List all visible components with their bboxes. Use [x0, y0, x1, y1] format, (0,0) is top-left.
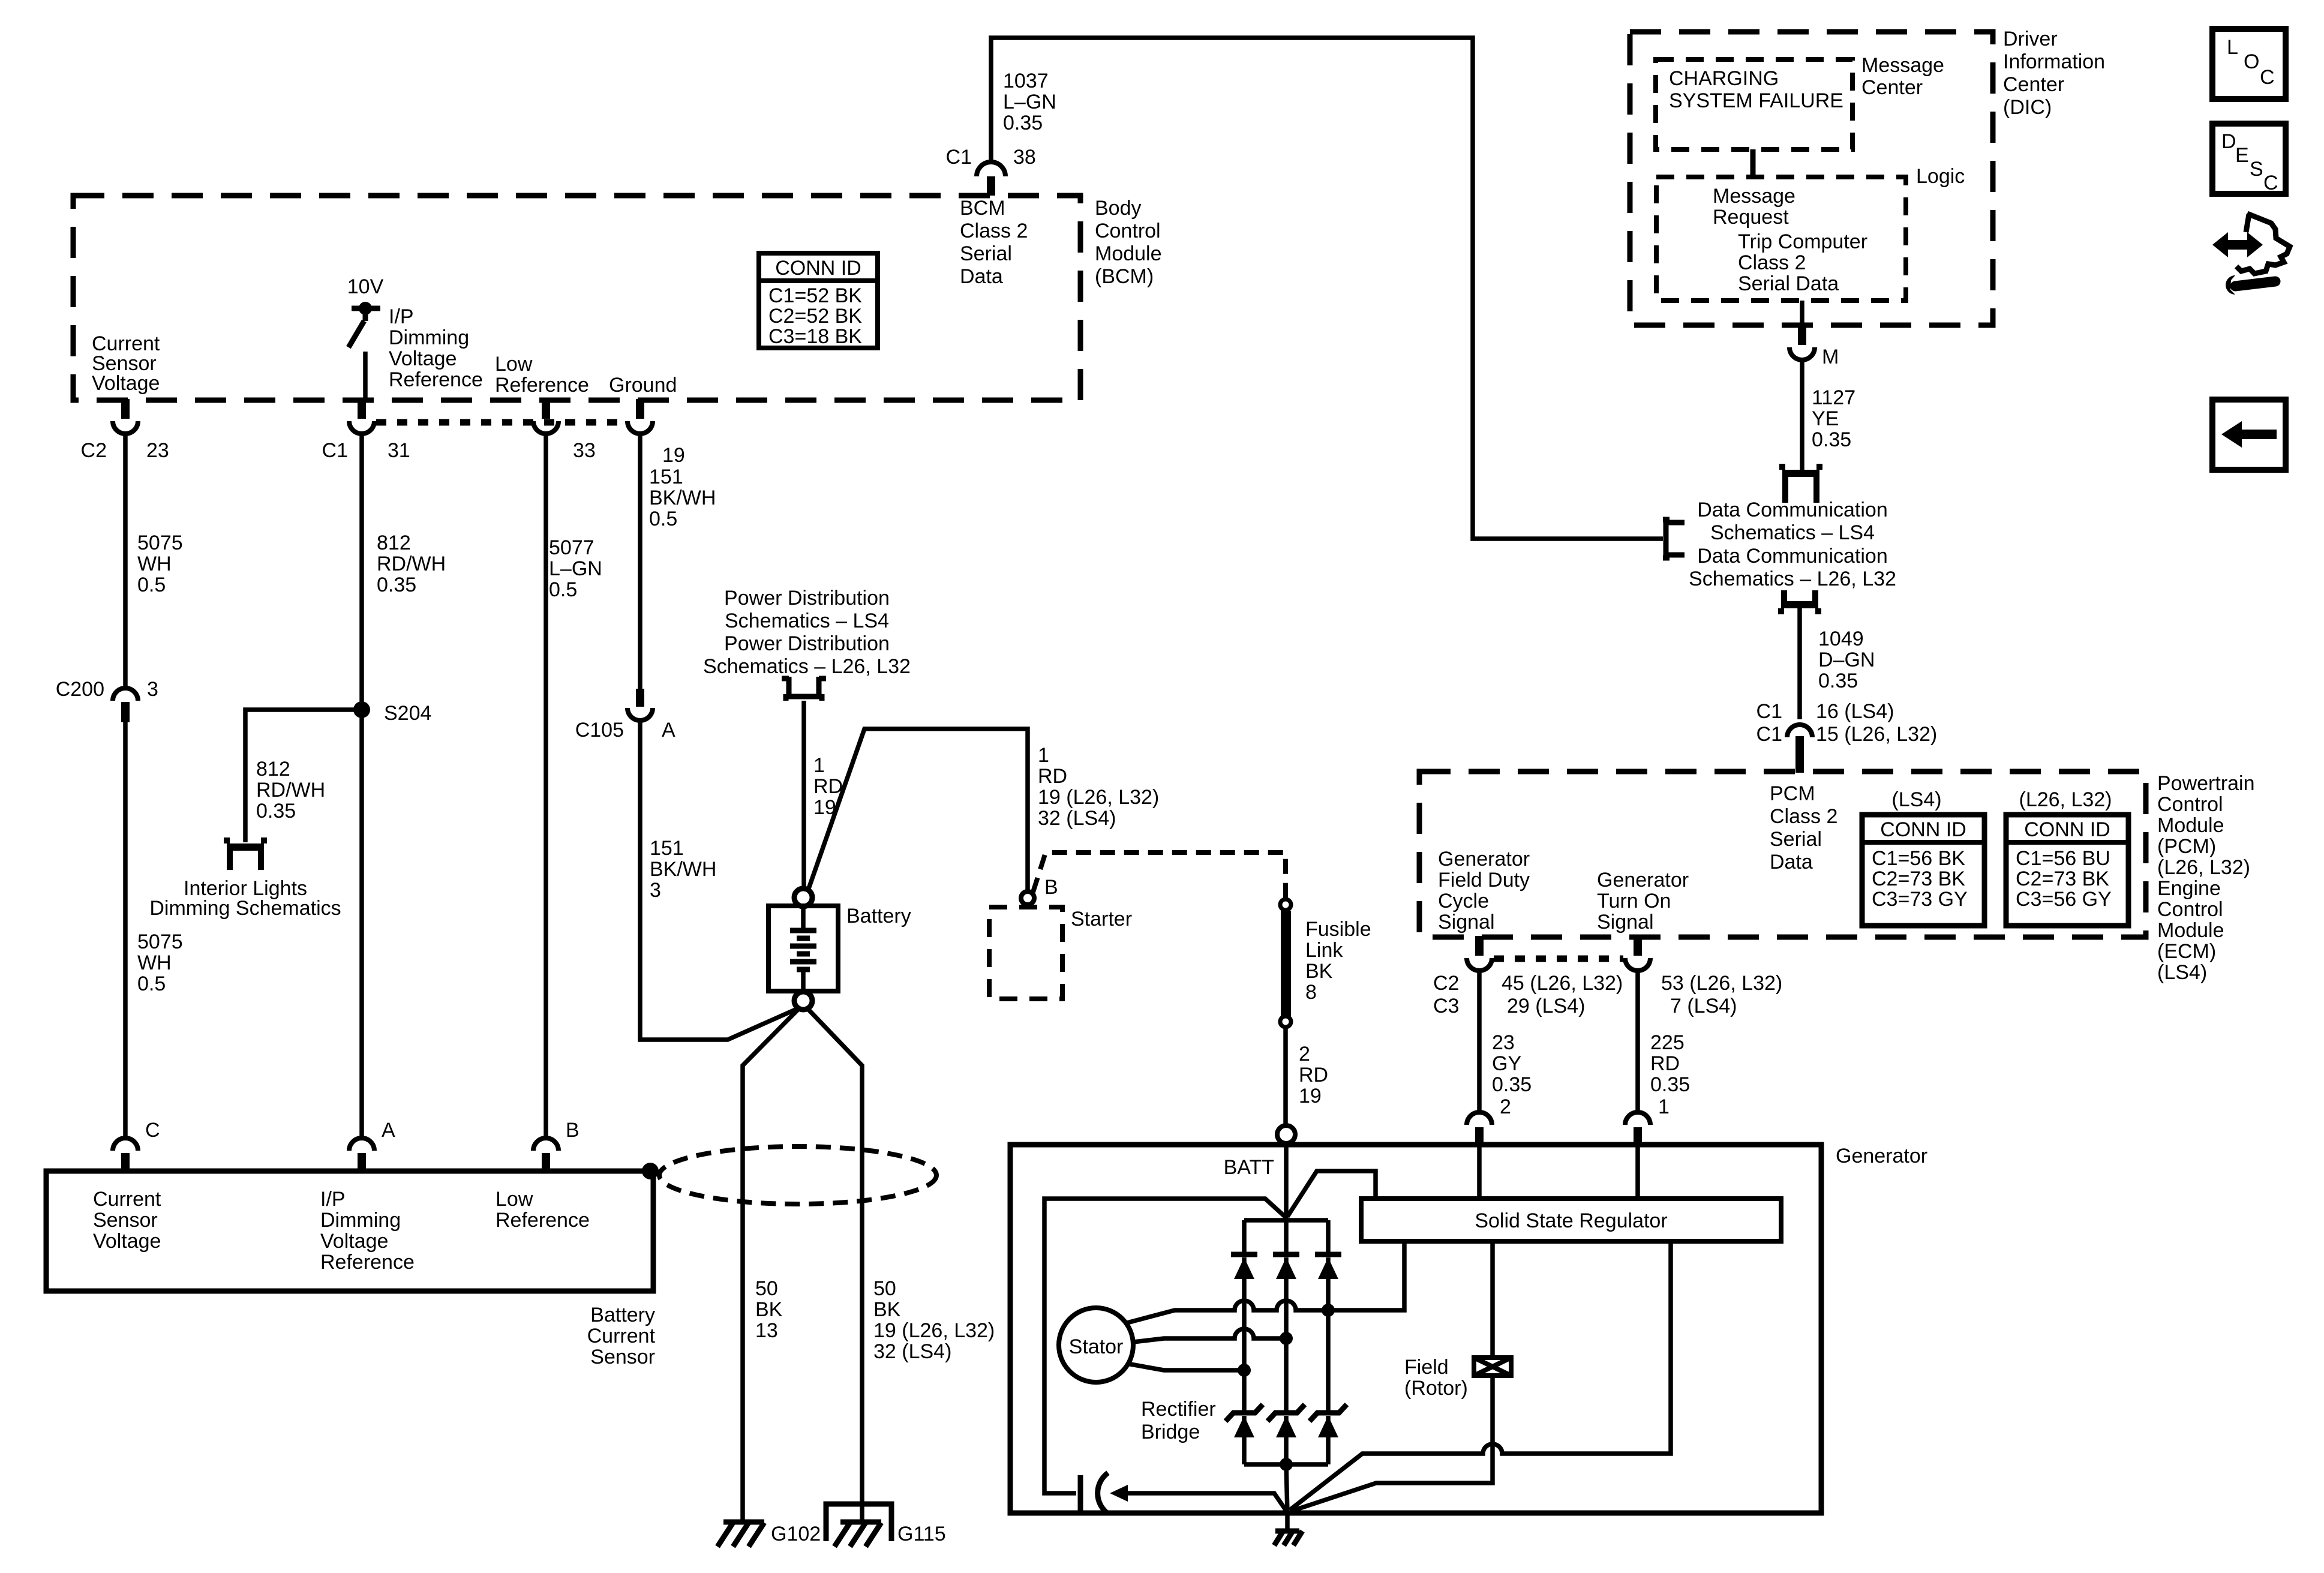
- wire 5077 L-GN from BCM 33 down to sensor B: [544, 434, 548, 1136]
- CONN ID table (PCM LS4): [1862, 815, 1984, 926]
- wire label 1 RD 19 (L26, L32) 32 (LS4): [1038, 744, 1159, 830]
- svg-text:16 (LS4): 16 (LS4): [1816, 700, 1894, 723]
- svg-text:Data Communication: Data Communication: [1697, 545, 1887, 568]
- wire 151 BK/WH from BCM ground pin down to C105: [638, 434, 642, 690]
- svg-text:C2: C2: [1433, 972, 1459, 995]
- wire BATT to rectifier left loop and capacitor: [1044, 1199, 1285, 1493]
- label Current Sensor Voltage (BCM): [92, 332, 160, 395]
- wire BATT to regulator step: [1287, 1171, 1376, 1217]
- diode 3 (top right): [1315, 1220, 1341, 1311]
- svg-text:C1: C1: [1756, 700, 1782, 723]
- svg-text:Link: Link: [1305, 939, 1343, 962]
- current sensor pickup loop (dashed ellipse): [659, 1146, 936, 1204]
- svg-text:19: 19: [1299, 1085, 1322, 1107]
- wire label 151 BK/WH 0.5: [649, 466, 716, 530]
- junction phase 3 / diode 1: [1238, 1364, 1251, 1377]
- off-page connector from BCM serial data (left bracket): [1663, 520, 1685, 558]
- svg-text:Bridge: Bridge: [1141, 1421, 1200, 1443]
- stator phase 3 wire: [1127, 1364, 1244, 1370]
- svg-text:1037: 1037: [1003, 70, 1049, 92]
- svg-text:0.5: 0.5: [549, 578, 577, 601]
- svg-text:Module: Module: [2157, 919, 2224, 942]
- svg-text:WH: WH: [137, 553, 172, 575]
- svg-text:S: S: [2250, 158, 2263, 181]
- wire logic to DIC pin M: [1800, 301, 1804, 326]
- svg-text:C2=52 BK: C2=52 BK: [768, 305, 862, 328]
- svg-text:13: 13: [755, 1319, 778, 1342]
- icon LOC box: [2212, 29, 2286, 99]
- label Power Distribution Schematics: [703, 587, 911, 678]
- svg-text:B: B: [1044, 876, 1058, 899]
- svg-text:RD/WH: RD/WH: [377, 553, 446, 575]
- wire generator pin 2 to regulator: [1477, 1146, 1482, 1199]
- wire label 23 GY 0.35: [1492, 1031, 1532, 1096]
- svg-text:Voltage: Voltage: [389, 347, 457, 370]
- wire label 50 BK 19 (L26, L32) 32 (LS4): [873, 1277, 995, 1363]
- svg-text:5075: 5075: [137, 532, 183, 554]
- label Field (Rotor): [1404, 1356, 1468, 1400]
- svg-text:32 (LS4): 32 (LS4): [1038, 807, 1116, 830]
- logic dashed box: [1656, 177, 1906, 301]
- connector C1 tie line (dotted): [376, 419, 626, 426]
- off-page connector from Power Distribution Schematics: [782, 677, 826, 701]
- connector pin 2 (generator): [1467, 1112, 1492, 1146]
- wire label 225 RD 0.35: [1650, 1031, 1690, 1096]
- svg-text:Stator: Stator: [1069, 1335, 1124, 1358]
- svg-text:Request: Request: [1713, 206, 1789, 229]
- svg-text:0.35: 0.35: [256, 800, 296, 822]
- off-page connector to data communication (from DIC): [1782, 464, 1819, 503]
- wire 5075 WH from BCM C2-23 down to C200: [123, 434, 128, 688]
- wire capacitor return to ground: [1127, 1493, 1287, 1512]
- svg-text:C200: C200: [56, 678, 104, 701]
- wire label 5075 WH 0.5: [137, 930, 183, 995]
- label Trip Computer Class 2 Serial Data: [1738, 230, 1867, 295]
- svg-text:2: 2: [1500, 1095, 1511, 1118]
- wire label 2 RD 19: [1299, 1043, 1328, 1107]
- label Generator Field Duty Cycle Signal: [1438, 848, 1530, 933]
- svg-text:Dimming Schematics: Dimming Schematics: [149, 897, 341, 920]
- svg-text:Fusible: Fusible: [1305, 918, 1371, 941]
- svg-text:50: 50: [755, 1277, 778, 1300]
- svg-text:BK: BK: [873, 1298, 901, 1321]
- svg-text:Voltage: Voltage: [92, 372, 160, 395]
- svg-text:Current: Current: [93, 1188, 161, 1211]
- svg-text:C1=52 BK: C1=52 BK: [768, 284, 862, 307]
- svg-text:L: L: [2227, 36, 2238, 59]
- wire 2 RD 19 from fusible link to generator BATT: [1283, 1027, 1288, 1126]
- svg-text:YE: YE: [1812, 407, 1839, 430]
- svg-text:RD: RD: [1038, 765, 1067, 788]
- svg-text:C2=73 BK: C2=73 BK: [1872, 867, 1965, 890]
- svg-text:Battery: Battery: [590, 1304, 655, 1326]
- wire label 1127 YE 0.35: [1812, 386, 1855, 451]
- svg-text:Information: Information: [2003, 50, 2105, 73]
- svg-text:53 (L26, L32): 53 (L26, L32): [1661, 972, 1782, 995]
- svg-text:CHARGING: CHARGING: [1669, 67, 1779, 90]
- CONN ID table (PCM L26/L32): [2006, 815, 2128, 926]
- svg-text:Sensor: Sensor: [93, 1209, 158, 1232]
- wire generator pin 1 to regulator: [1635, 1146, 1640, 1199]
- svg-text:3: 3: [650, 879, 661, 902]
- svg-text:PCM: PCM: [1770, 782, 1815, 805]
- fusible link BK 8: [1280, 899, 1291, 1027]
- rectifier bottom bus: [1244, 1462, 1328, 1467]
- ground G102: [717, 1522, 764, 1547]
- svg-text:1: 1: [1038, 744, 1049, 767]
- svg-text:Serial: Serial: [960, 242, 1012, 265]
- connector pin C1 31 (BCM bottom): [349, 399, 374, 434]
- ground G115: [834, 1522, 881, 1547]
- connector pin A (sensor): [349, 1138, 374, 1172]
- svg-text:1: 1: [813, 754, 825, 777]
- wire label 1049 D-GN 0.35: [1818, 628, 1875, 692]
- svg-text:Control: Control: [1095, 220, 1161, 242]
- wire 812 RD/WH from BCM C1-31 down through S204 to sensor A: [359, 434, 364, 1136]
- svg-text:L–GN: L–GN: [1003, 91, 1056, 113]
- label I/P Dimming Voltage Reference (sensor): [320, 1188, 415, 1274]
- diode 6 (bottom right, zener): [1310, 1311, 1347, 1464]
- svg-text:Control: Control: [2157, 793, 2223, 816]
- starter dashed box: [989, 907, 1062, 999]
- svg-text:Dimming: Dimming: [320, 1209, 401, 1232]
- battery current sensor box: [46, 1171, 653, 1291]
- svg-text:29 (LS4): 29 (LS4): [1507, 995, 1585, 1017]
- svg-text:0.35: 0.35: [1003, 112, 1043, 134]
- svg-text:Data: Data: [1770, 851, 1813, 873]
- svg-text:Field: Field: [1404, 1356, 1449, 1379]
- label Message Request: [1713, 185, 1795, 229]
- svg-text:WH: WH: [137, 951, 172, 974]
- junction sensor loop: [642, 1163, 659, 1179]
- stator phase 2 wire with hop: [1133, 1329, 1286, 1342]
- svg-text:8: 8: [1305, 981, 1317, 1004]
- svg-text:32 (LS4): 32 (LS4): [873, 1340, 951, 1363]
- svg-text:151: 151: [649, 466, 683, 488]
- label Powertrain Control Module (PCM) (L26, L32) Engine Control Module (ECM) (LS4): [2157, 772, 2255, 984]
- svg-text:0.35: 0.35: [1650, 1073, 1690, 1096]
- svg-text:812: 812: [256, 758, 290, 781]
- label Current Sensor Voltage (sensor): [93, 1188, 161, 1253]
- svg-text:Reference: Reference: [495, 374, 589, 397]
- svg-text:225: 225: [1650, 1031, 1685, 1054]
- connector pin C2/C3 45/29 (PCM bottom): [1467, 936, 1492, 971]
- svg-text:0.35: 0.35: [377, 574, 416, 596]
- svg-text:38: 38: [1013, 146, 1036, 169]
- svg-text:19 (L26, L32): 19 (L26, L32): [1038, 786, 1159, 809]
- label Data Communication Schematics: [1689, 499, 1896, 590]
- label Body Control Module (BCM): [1095, 197, 1162, 288]
- svg-text:C: C: [2263, 172, 2278, 194]
- svg-text:0.35: 0.35: [1492, 1073, 1532, 1096]
- icon DESC box: [2212, 124, 2286, 194]
- svg-text:A: A: [382, 1119, 395, 1142]
- connector pin C (sensor): [113, 1138, 138, 1172]
- wire 1127 YE from DIC M to data communication: [1800, 361, 1804, 471]
- svg-text:BATT: BATT: [1224, 1156, 1274, 1179]
- svg-text:BK: BK: [755, 1298, 783, 1321]
- svg-text:Class 2: Class 2: [1770, 805, 1837, 828]
- svg-text:2: 2: [1299, 1043, 1310, 1065]
- pin label 45 (L26, L32) 29 (LS4): [1502, 972, 1623, 1017]
- svg-text:C: C: [2260, 66, 2275, 89]
- svg-text:Logic: Logic: [1916, 165, 1965, 188]
- wire label 812 RD/WH 0.35 (branch): [256, 758, 325, 822]
- svg-text:Reference: Reference: [496, 1209, 590, 1232]
- svg-text:Current: Current: [587, 1325, 656, 1347]
- svg-text:RD: RD: [1299, 1064, 1328, 1086]
- svg-text:CONN ID: CONN ID: [2024, 818, 2110, 841]
- svg-text:Generator: Generator: [1836, 1145, 1927, 1167]
- battery positive terminal: [794, 888, 812, 906]
- pin label 53 (L26, L32) 7 (LS4): [1661, 972, 1782, 1017]
- svg-text:I/P: I/P: [389, 305, 414, 328]
- svg-text:Driver: Driver: [2003, 28, 2058, 50]
- battery B+: [768, 906, 838, 991]
- junction phase 1 / diode 3: [1322, 1304, 1335, 1317]
- wire regulator right leg to ground fan with hop: [1290, 1241, 1671, 1510]
- connector pin 53/7 (PCM bottom): [1625, 936, 1650, 971]
- solid state regulator box: [1361, 1199, 1781, 1241]
- svg-text:(LS4): (LS4): [2157, 961, 2207, 984]
- svg-text:Center: Center: [1861, 76, 1923, 99]
- svg-text:G115: G115: [897, 1523, 946, 1545]
- svg-text:B: B: [566, 1119, 580, 1142]
- svg-text:BK: BK: [1305, 960, 1333, 983]
- svg-text:C2=73 BK: C2=73 BK: [2016, 867, 2109, 890]
- stator phase 1 wire with hops to regulator: [1125, 1241, 1404, 1323]
- svg-text:0.5: 0.5: [137, 574, 166, 596]
- wire BATT internal lead: [1284, 1143, 1289, 1220]
- svg-text:Starter: Starter: [1071, 908, 1132, 930]
- connector C200 pin 3: [113, 688, 138, 722]
- svg-text:C1: C1: [946, 146, 972, 169]
- svg-text:Body: Body: [1095, 197, 1142, 220]
- connector pin C2 23 (BCM bottom): [113, 399, 138, 434]
- svg-text:0.35: 0.35: [1812, 428, 1851, 451]
- label Driver Information Center (DIC): [2003, 28, 2105, 119]
- pin label 16 (LS4) 15 (L26, L32): [1816, 700, 1937, 746]
- svg-text:A: A: [662, 719, 675, 742]
- svg-text:E: E: [2235, 144, 2249, 167]
- svg-text:(PCM): (PCM): [2157, 835, 2216, 858]
- wire 50 BK 13 battery negative to G102: [743, 1008, 800, 1520]
- svg-text:33: 33: [573, 439, 596, 462]
- svg-text:C3=73 GY: C3=73 GY: [1872, 888, 1968, 911]
- label Battery Current Sensor: [587, 1304, 656, 1368]
- wire label 50 BK 13: [755, 1277, 783, 1342]
- svg-text:45 (L26, L32): 45 (L26, L32): [1502, 972, 1623, 995]
- svg-text:Reference: Reference: [389, 368, 483, 391]
- svg-text:(LS4): (LS4): [1891, 788, 1941, 811]
- connector pin B (sensor): [533, 1138, 559, 1172]
- junction bottom bus: [1280, 1458, 1293, 1471]
- battery cell plates: [790, 906, 816, 990]
- svg-text:Turn On: Turn On: [1597, 890, 1671, 912]
- svg-text:S204: S204: [384, 702, 431, 725]
- wire BCM C1/38 serial data up and across to data-comm bracket: [991, 38, 1663, 539]
- svg-text:Message: Message: [1713, 185, 1795, 208]
- svg-text:Schematics – L26, L32: Schematics – L26, L32: [1689, 568, 1896, 590]
- svg-text:Voltage: Voltage: [93, 1230, 161, 1253]
- wire label 812 RD/WH 0.35: [377, 532, 446, 596]
- off-page connector to PCM serial data: [1781, 590, 1818, 614]
- svg-text:(L26, L32): (L26, L32): [2019, 788, 2112, 811]
- svg-text:1127: 1127: [1812, 386, 1855, 409]
- svg-text:23: 23: [1492, 1031, 1515, 1054]
- connector pin C1 38 (BCM top): [977, 162, 1005, 196]
- svg-text:I/P: I/P: [320, 1188, 346, 1211]
- svg-text:Engine: Engine: [2157, 877, 2221, 900]
- svg-text:O: O: [2244, 50, 2259, 73]
- svg-text:RD: RD: [813, 775, 843, 798]
- svg-text:Schematics – LS4: Schematics – LS4: [725, 610, 889, 632]
- wire label 5077 L-GN 0.5: [549, 536, 602, 601]
- generator BATT terminal: [1277, 1125, 1295, 1143]
- svg-text:31: 31: [388, 439, 410, 462]
- wire 1 RD 19 from power distribution to battery positive: [801, 701, 806, 888]
- label Interior Lights Dimming Schematics: [149, 877, 341, 920]
- svg-text:0.35: 0.35: [1818, 670, 1858, 692]
- svg-text:(DIC): (DIC): [2003, 96, 2052, 119]
- DIC dashed box: [1630, 32, 1993, 325]
- svg-text:CONN ID: CONN ID: [1880, 818, 1966, 841]
- wire 151 BK/WH 3 from C105 to battery negative: [640, 721, 798, 1040]
- wire regulator to field coil: [1490, 1241, 1495, 1358]
- svg-text:Module: Module: [1095, 242, 1162, 265]
- svg-text:L–GN: L–GN: [549, 557, 602, 580]
- svg-text:Generator: Generator: [1597, 869, 1689, 891]
- svg-text:0.5: 0.5: [649, 508, 677, 530]
- svg-text:Reference: Reference: [320, 1251, 415, 1274]
- label CHARGING SYSTEM FAILURE: [1669, 67, 1843, 112]
- label PCM Class 2 Serial Data: [1770, 782, 1837, 873]
- svg-text:C3=56 GY: C3=56 GY: [2016, 888, 2112, 911]
- connector pin M (DIC bottom): [1789, 325, 1815, 360]
- message center dashed box: [1656, 59, 1852, 149]
- svg-text:C3: C3: [1433, 995, 1459, 1017]
- svg-text:Generator: Generator: [1438, 848, 1530, 870]
- svg-text:23: 23: [146, 439, 169, 462]
- svg-text:Solid State Regulator: Solid State Regulator: [1475, 1209, 1667, 1232]
- wire 23 GY generator field duty cycle signal: [1477, 972, 1482, 1112]
- svg-text:1: 1: [1658, 1095, 1670, 1118]
- wire 5075 WH from C200 to current sensor C: [123, 722, 128, 1136]
- svg-text:BK/WH: BK/WH: [650, 858, 716, 881]
- svg-text:Field Duty: Field Duty: [1438, 869, 1530, 891]
- svg-text:M: M: [1822, 346, 1839, 368]
- wire label 1037 L-GN 0.35: [1003, 70, 1056, 134]
- connector pin 1 (generator): [1625, 1112, 1650, 1146]
- svg-text:Trip Computer: Trip Computer: [1738, 230, 1867, 253]
- svg-text:(ECM): (ECM): [2157, 940, 2216, 963]
- svg-text:CONN ID: CONN ID: [775, 257, 861, 280]
- svg-text:19: 19: [662, 444, 685, 467]
- svg-text:RD: RD: [1650, 1052, 1680, 1075]
- svg-text:G102: G102: [771, 1523, 821, 1545]
- svg-text:C1: C1: [322, 439, 348, 462]
- stator winding circle: [1059, 1308, 1133, 1382]
- svg-text:Power Distribution: Power Distribution: [724, 587, 890, 610]
- svg-text:Module: Module: [2157, 814, 2224, 837]
- wire 1049 D-GN serial data into PCM: [1797, 607, 1802, 719]
- wire 225 RD generator turn on signal: [1635, 972, 1640, 1112]
- svg-text:RD/WH: RD/WH: [256, 779, 325, 801]
- svg-text:C1: C1: [1756, 723, 1782, 746]
- rectifier top bus: [1244, 1218, 1328, 1223]
- svg-text:D: D: [2221, 130, 2236, 153]
- connector pin C1 16/15 (PCM top): [1787, 725, 1812, 773]
- svg-text:SYSTEM FAILURE: SYSTEM FAILURE: [1669, 89, 1843, 112]
- svg-text:Data Communication: Data Communication: [1697, 499, 1887, 521]
- svg-text:Power Distribution: Power Distribution: [724, 632, 890, 655]
- svg-text:7 (LS4): 7 (LS4): [1670, 995, 1737, 1017]
- svg-text:Serial: Serial: [1770, 828, 1822, 851]
- connector tie line (PCM bottom, dotted): [1494, 956, 1623, 962]
- ground G115 bracket: [826, 1504, 891, 1541]
- label Low Reference (sensor): [496, 1188, 590, 1232]
- pin label C2 C3: [1433, 972, 1459, 1017]
- svg-text:151: 151: [650, 837, 684, 860]
- label Fusible Link BK 8: [1305, 918, 1371, 1004]
- wire label 5075 WH 0.5: [137, 532, 183, 596]
- svg-text:Message: Message: [1861, 54, 1944, 77]
- svg-text:50: 50: [873, 1277, 896, 1300]
- svg-text:3: 3: [147, 678, 158, 701]
- svg-text:(L26, L32): (L26, L32): [2157, 856, 2250, 879]
- svg-text:C1=56 BU: C1=56 BU: [2016, 847, 2110, 870]
- connector C105 pin A: [627, 689, 653, 721]
- svg-text:Voltage: Voltage: [320, 1230, 388, 1253]
- svg-text:Signal: Signal: [1597, 911, 1654, 933]
- svg-text:5075: 5075: [137, 930, 183, 953]
- svg-text:C3=18 BK: C3=18 BK: [768, 325, 862, 348]
- svg-text:Low: Low: [496, 1188, 533, 1211]
- svg-text:BCM: BCM: [960, 197, 1005, 220]
- wire label 1 RD 19: [813, 754, 843, 819]
- svg-text:(Rotor): (Rotor): [1404, 1377, 1468, 1400]
- field rotor coil: [1474, 1358, 1511, 1376]
- svg-text:Data: Data: [960, 265, 1003, 288]
- BCM dashed box: [73, 196, 1080, 400]
- svg-text:Rectifier: Rectifier: [1141, 1398, 1216, 1421]
- diode 2 (top middle): [1273, 1220, 1299, 1340]
- off-page connector to Interior Lights Dimming Schematics: [227, 837, 264, 870]
- label BCM Class 2 Serial Data: [960, 197, 1028, 288]
- svg-text:Class 2: Class 2: [1738, 251, 1806, 274]
- svg-text:D–GN: D–GN: [1818, 649, 1875, 671]
- PCM dashed box: [1419, 772, 2146, 937]
- label I/P Dimming Voltage Reference (BCM): [389, 305, 483, 391]
- svg-text:C105: C105: [575, 719, 624, 742]
- svg-text:0.5: 0.5: [137, 972, 166, 995]
- svg-text:Serial Data: Serial Data: [1738, 272, 1839, 295]
- svg-text:Cycle: Cycle: [1438, 890, 1489, 912]
- label Rectifier Bridge: [1141, 1398, 1216, 1443]
- label Generator Turn On Signal: [1597, 869, 1689, 933]
- label Message Center: [1861, 54, 1944, 99]
- diode 1 (top left): [1231, 1220, 1257, 1371]
- battery negative terminal: [794, 992, 812, 1010]
- generator case ground: [1274, 1513, 1302, 1545]
- svg-text:C2: C2: [81, 439, 107, 462]
- svg-text:C: C: [145, 1119, 160, 1142]
- junction phase 2 / diode 2: [1280, 1332, 1293, 1345]
- svg-text:BK/WH: BK/WH: [649, 487, 716, 509]
- CONN ID table (BCM): [759, 253, 878, 348]
- svg-text:Battery: Battery: [846, 905, 911, 927]
- svg-text:5077: 5077: [549, 536, 594, 559]
